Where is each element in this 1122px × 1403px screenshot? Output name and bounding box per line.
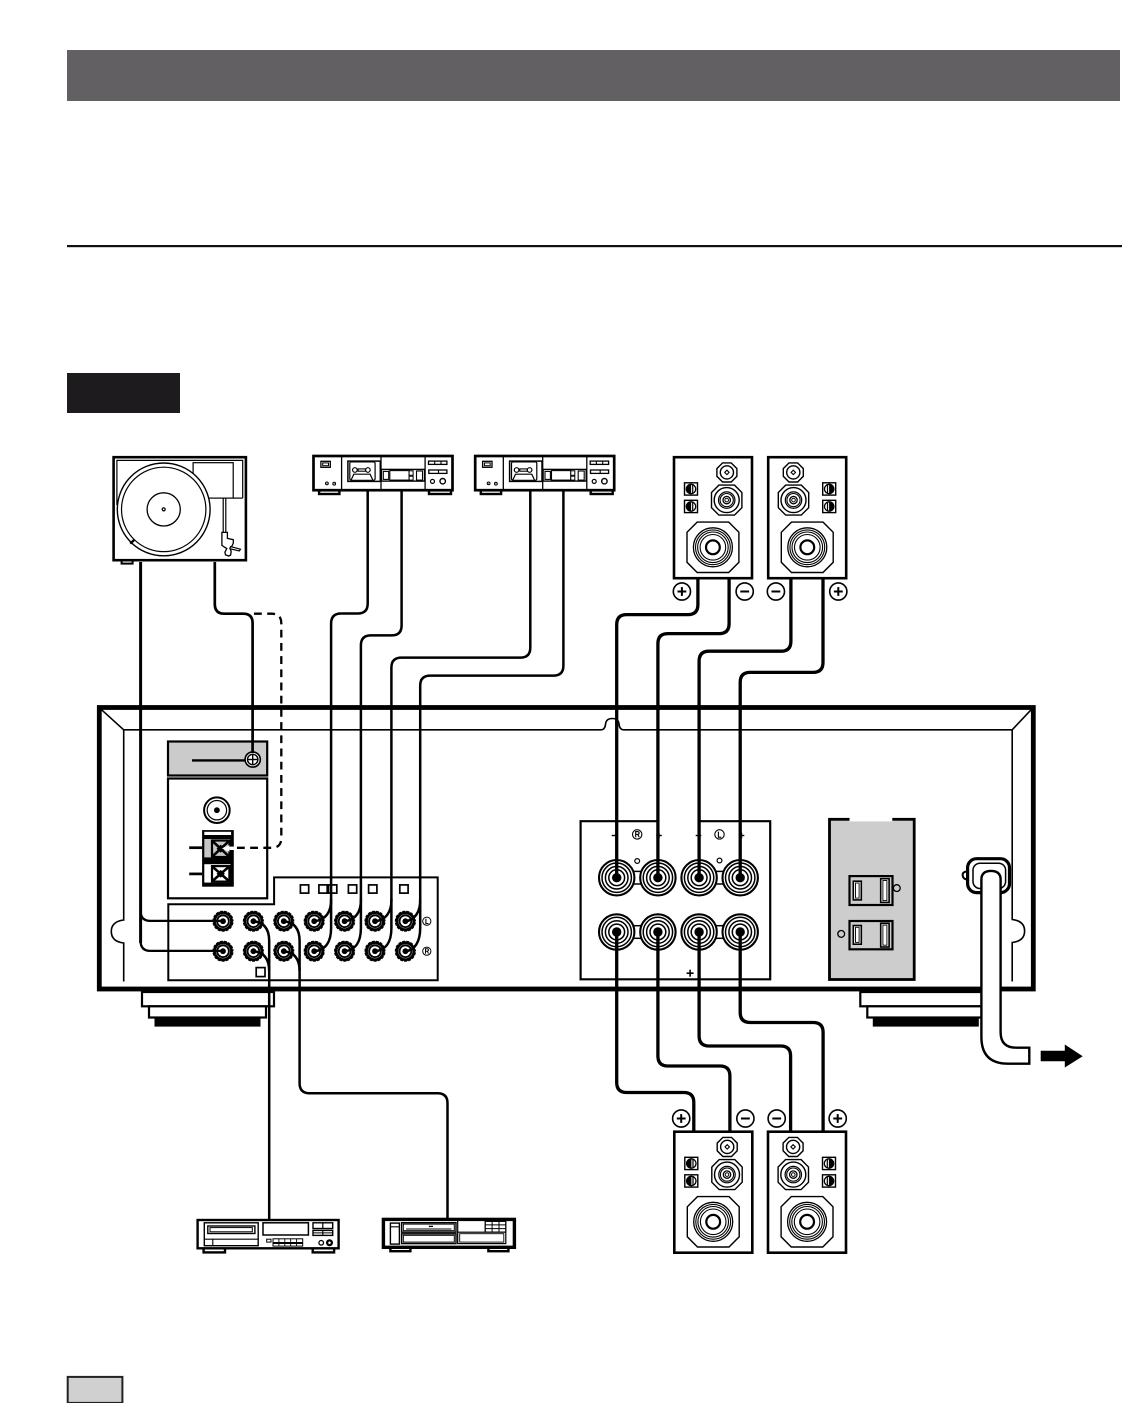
- wire speaker A left +: [740, 577, 823, 878]
- RCA jacks row R: [212, 941, 233, 962]
- speaker terminal box: [581, 821, 771, 979]
- coax antenna terminal: [204, 797, 230, 823]
- AC outlet 2: [838, 921, 893, 949]
- wire CD player: [253, 921, 269, 1220]
- speaker A left (top): [768, 457, 846, 578]
- receiver left foot: [142, 992, 274, 1026]
- wire deck B to TAPE2 R: [405, 491, 563, 952]
- binding posts R channel bottom: [599, 914, 634, 949]
- speaker B left (bottom): [768, 1132, 846, 1253]
- label R (inputs): [423, 947, 431, 955]
- wire speaker B right -: [658, 932, 730, 1133]
- cassette deck B: [475, 456, 614, 494]
- binding posts L channel top: [681, 860, 716, 895]
- FM antenna panel: [168, 742, 267, 776]
- polarity labels speaker A: [673, 583, 690, 600]
- AM terminal 1 (AM ANT): [212, 841, 234, 858]
- CD player: [198, 1220, 339, 1252]
- AM terminal 2 (GND): [212, 866, 229, 882]
- section label box: [67, 373, 180, 413]
- RCA jacks row L: [212, 911, 233, 932]
- FM GND screw terminal: [245, 752, 260, 767]
- screw holes: [635, 859, 640, 864]
- speaker terminal labels: [612, 833, 745, 977]
- wire speaker A right -: [658, 577, 729, 878]
- turntable: [114, 457, 246, 563]
- page number box: [68, 1377, 123, 1403]
- header bar: [67, 50, 1120, 101]
- terminal pair bridges: [628, 871, 729, 938]
- wire speaker A left -: [699, 577, 791, 878]
- wire turntable to PHONO: [141, 562, 223, 951]
- label L (speakers): [715, 830, 724, 839]
- AM antenna panel: [168, 779, 267, 899]
- AC plug arrow: [1041, 1045, 1083, 1068]
- speaker A right (top): [674, 457, 752, 578]
- cassette deck A: [314, 456, 453, 494]
- binding posts R channel top: [599, 860, 634, 895]
- dashed alternate ground wire: [236, 614, 281, 848]
- polarity labels speaker B: [673, 1110, 690, 1127]
- wire deck B to TAPE2 L: [375, 491, 530, 952]
- DVD player: [383, 1219, 514, 1251]
- wire turntable ground to GND screw: [215, 562, 253, 753]
- wire speaker A right +: [617, 577, 698, 878]
- AC outlet panel: [830, 817, 915, 980]
- power cord: [981, 871, 1029, 1064]
- receiver right foot: [860, 992, 992, 1026]
- AM push terminal block: [189, 830, 234, 887]
- binding posts L channel bottom: [681, 914, 716, 949]
- input jack panel: [168, 877, 437, 980]
- receiver rear panel body: [99, 708, 1033, 990]
- horizontal rule: [67, 245, 1122, 247]
- wire speaker B right +: [617, 932, 694, 1133]
- wire speaker B left +: [740, 932, 823, 1133]
- label L (inputs): [423, 917, 431, 925]
- wire DVD player: [284, 921, 448, 1221]
- wire deck A to TAPE1 L: [314, 491, 368, 952]
- power cord grommet: [963, 859, 1010, 893]
- wire deck A to TAPE1 R: [345, 491, 402, 952]
- wire speaker B left -: [699, 932, 791, 1133]
- AC outlet 1: [850, 876, 901, 905]
- speaker B right (bottom): [674, 1132, 752, 1253]
- label R (speakers): [633, 830, 642, 839]
